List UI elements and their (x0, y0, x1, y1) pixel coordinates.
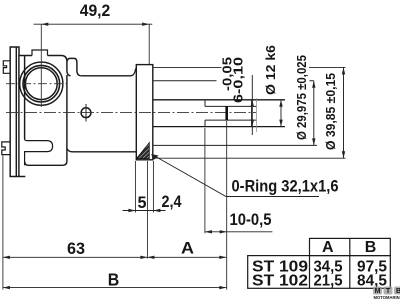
svg-text:ST 102: ST 102 (252, 273, 308, 290)
shaft end face (251, 100, 253, 127)
dimension B line (3, 286, 226, 289)
O-ring leader line (152, 155, 319, 197)
pump body: lower-left notched tab (2, 142, 10, 155)
shaft Ø12 top line / extension (153, 99, 285, 101)
O-ring wedge (hatched) (137, 143, 150, 159)
Ø29,975 dimension line (312, 81, 315, 146)
table outline (248, 238, 391, 288)
port boss outer circle (20, 62, 63, 105)
dimension 63 / A line (3, 256, 226, 259)
svg-text:2,4: 2,4 (162, 193, 183, 211)
watermark logo boxes (373, 287, 400, 300)
svg-text:21,5: 21,5 (314, 273, 343, 290)
svg-text:49,2: 49,2 (80, 1, 111, 20)
pump body: left mounting flange outer edge (10, 47, 24, 177)
port bore circle (23, 65, 60, 102)
Ø39,85 top extension (153, 66, 346, 68)
end cap rectangle (136, 65, 153, 160)
neck cylinder bottom (67, 149, 137, 152)
flat runout bar (225, 106, 228, 120)
svg-text:B: B (365, 239, 377, 256)
dimension 5 / 2,4 extension lines (135, 161, 153, 259)
pump body: top tab on block (32, 50, 48, 56)
svg-text:5: 5 (138, 194, 147, 212)
dimension 10-0,5 line (205, 230, 273, 233)
pump body: slot finger in lower block (25, 139, 53, 165)
svg-text:A: A (181, 239, 194, 258)
dimension 5 / 2,4 line with outside arrows (123, 209, 166, 212)
svg-text:10-0,5: 10-0,5 (230, 211, 272, 229)
bolt hole crosshair vertical (85, 104, 87, 122)
pump body: upper-left notched tab (3, 61, 10, 74)
pump body: main block outline (19, 56, 81, 166)
bolt hole circle (81, 108, 91, 118)
Ø39,85 dimension line (342, 67, 345, 158)
shaft journal Ø29,975 bottom line / extension (153, 144, 317, 146)
Ø12 dimension line on end face (251, 75, 254, 135)
O-ring leader arrowhead (151, 154, 159, 160)
left datum extension line (2, 156, 4, 290)
svg-text:Ø 12 k6: Ø 12 k6 (263, 45, 278, 95)
shaft Ø12 bottom line / extension (153, 126, 285, 128)
svg-text:84,5: 84,5 (357, 273, 387, 290)
svg-text:0-Ring 32,1x1,6: 0-Ring 32,1x1,6 (232, 177, 339, 196)
Ø39,85 bottom extension (153, 157, 346, 159)
dimension 10-0,5 extension lines (205, 121, 227, 290)
flat 6 dimension line (279, 100, 282, 127)
svg-text:63: 63 (67, 239, 85, 258)
rotated tolerance text -0,05 / 6-0,10 (220, 57, 246, 103)
svg-text:B: B (108, 270, 120, 290)
port centerline horizontal (6, 83, 67, 85)
shaft flat step verticals (204, 100, 206, 127)
shaft flat bottom line (205, 119, 257, 121)
dimension 49,2 line (34, 23, 153, 65)
svg-text:Ø 29,975 ±0,025: Ø 29,975 ±0,025 (295, 55, 309, 140)
svg-text:A: A (322, 239, 334, 256)
shaft journal Ø29,975 top line / extension (153, 80, 314, 82)
svg-text:6-0,10: 6-0,10 (231, 57, 246, 103)
flat width extension line (light) (256, 98, 258, 132)
white masks under rotated dimension texts (222, 44, 339, 151)
main axis centerline (6, 112, 256, 114)
port centerline vertical / 49,2 left extension (40, 24, 42, 107)
port inner chamfer circle (25, 68, 57, 100)
svg-text:MOTOMARINE: MOTOMARINE (374, 295, 400, 300)
neck cylinder top (81, 69, 136, 76)
svg-text:Ø 39,85 ±0,15: Ø 39,85 ±0,15 (324, 73, 338, 150)
shaft flat top line (205, 105, 257, 107)
